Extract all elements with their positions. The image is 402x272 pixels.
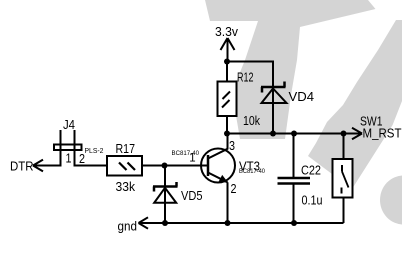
node rail/SW1 bbox=[341, 131, 347, 137]
svg-text:R12: R12 bbox=[237, 70, 254, 85]
svg-text:2: 2 bbox=[231, 181, 237, 196]
capacitor C22 bbox=[278, 134, 323, 224]
svg-text:3.3v: 3.3v bbox=[215, 24, 238, 39]
svg-text:1: 1 bbox=[66, 151, 72, 166]
node base/VD5 bbox=[162, 163, 168, 169]
wire 3.3v to R12 bbox=[226, 62, 228, 82]
ground gnd arrow bbox=[118, 217, 149, 233]
node rail/R12 bbox=[224, 131, 230, 137]
svg-text:R17: R17 bbox=[116, 141, 136, 156]
svg-text:PLS-2: PLS-2 bbox=[85, 146, 104, 155]
svg-text:M_RST: M_RST bbox=[363, 126, 402, 141]
svg-text:J4: J4 bbox=[63, 117, 75, 132]
wire R17 to base bbox=[142, 165, 208, 167]
svg-text:C22: C22 bbox=[301, 163, 321, 178]
svg-text:gnd: gnd bbox=[118, 218, 138, 233]
svg-text:BC817-40: BC817-40 bbox=[172, 150, 200, 157]
transistor VT3 bbox=[172, 134, 266, 224]
svg-text:3: 3 bbox=[229, 138, 235, 153]
port DTR arrow bbox=[10, 159, 43, 174]
wire 3.3v to VD4 bbox=[227, 62, 273, 88]
connector J4 bbox=[34, 117, 107, 166]
node 3.3v junction bbox=[224, 59, 230, 65]
watermark bbox=[205, 0, 402, 225]
svg-text:VD5: VD5 bbox=[181, 188, 203, 203]
port M_RST arrow bbox=[352, 114, 402, 141]
power 3.3v bbox=[215, 24, 238, 62]
wire M_RST rail bbox=[227, 133, 361, 135]
node rail/VD4 bbox=[270, 131, 276, 137]
svg-text:BC817-40: BC817-40 bbox=[239, 168, 265, 175]
svg-text:VD4: VD4 bbox=[289, 89, 315, 104]
svg-text:10k: 10k bbox=[243, 113, 260, 128]
node gnd/C22 bbox=[291, 220, 297, 226]
diode VD4 bbox=[261, 82, 314, 134]
node gnd/VD5 bbox=[162, 220, 168, 226]
node rail/C22 bbox=[291, 131, 297, 137]
resistor R12 bbox=[218, 70, 261, 129]
wire R12 to rail bbox=[226, 116, 228, 134]
svg-text:33k: 33k bbox=[116, 179, 136, 194]
diode VD5 bbox=[153, 166, 203, 224]
svg-text:DTR: DTR bbox=[10, 159, 34, 174]
svg-text:0.1u: 0.1u bbox=[302, 192, 323, 207]
resistor R17 bbox=[107, 141, 142, 194]
wire ground rail bbox=[139, 222, 344, 224]
node gnd/VT3 bbox=[225, 220, 231, 226]
switch SW1 bbox=[333, 134, 353, 224]
